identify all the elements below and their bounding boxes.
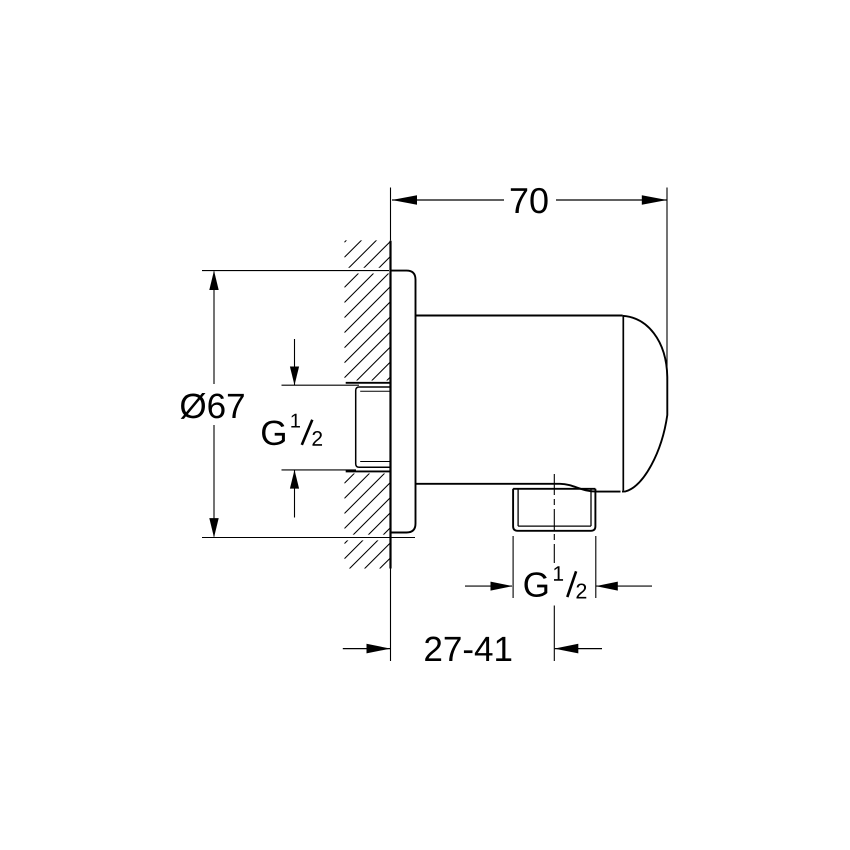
dimension 70 (top) [391,188,668,381]
dome profile [622,316,667,492]
centerline extension below [553,606,555,662]
outlet centerline [553,474,555,563]
body cylinder top [416,315,623,317]
wall surface line [389,241,391,569]
outlet thread G1/2 (bottom) [513,489,595,531]
dome edge line [622,316,624,491]
dimension 27-41 (bottom) [343,569,602,662]
dimension G 1/2 (outlet) [465,536,652,599]
dimension Ø67 (left) [181,271,415,538]
dimension G 1/2 (rear thread) [262,339,359,518]
flange (wall rosette) [391,271,416,533]
rear thread G1/2 (behind wall) [346,383,391,472]
body cylinder bottom with fillet to outlet [416,484,621,492]
